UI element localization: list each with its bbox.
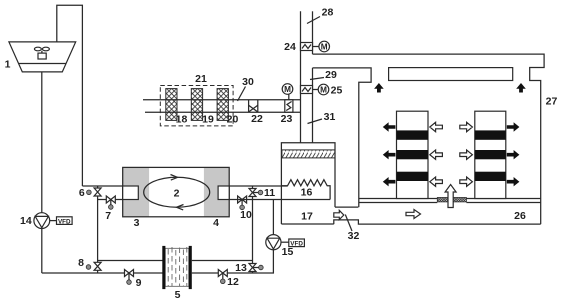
wire bottom-left pipe [42, 272, 163, 274]
wire vertical duct right line lower [312, 68, 314, 143]
svg-text:26: 26 [514, 210, 526, 222]
cold aisle up arrow [445, 185, 456, 208]
svg-text:16: 16 [301, 186, 313, 198]
svg-text:32: 32 [348, 230, 360, 242]
wire lower pipe HX to AHU [229, 199, 330, 201]
svg-text:28: 28 [322, 7, 334, 19]
heat exchanger 2 [123, 167, 230, 216]
wire duct 29 bottom and left wall [313, 68, 372, 207]
svg-text:15: 15 [282, 246, 294, 258]
svg-text:12: 12 [227, 276, 239, 288]
pump 14 [34, 213, 72, 229]
valve 11 [249, 189, 263, 197]
server rack right [475, 111, 506, 198]
filter 18 [166, 89, 177, 121]
filter 20 [217, 89, 228, 121]
svg-text:21: 21 [195, 73, 207, 85]
wire pump 15 top riser [272, 200, 274, 235]
tank 5 [162, 246, 192, 289]
svg-text:9: 9 [136, 277, 142, 289]
motor M of damper 23 [282, 84, 293, 95]
damper 25 [301, 86, 319, 94]
svg-text:19: 19 [202, 114, 214, 126]
valve 7 [106, 196, 115, 209]
svg-text:M: M [320, 86, 327, 95]
svg-text:18: 18 [176, 114, 188, 126]
wire vertical duct left line [300, 11, 302, 142]
hot exhaust arrows left rack [383, 122, 396, 131]
humidifier 22 [249, 100, 258, 112]
underfloor supply arrow [406, 210, 421, 219]
svg-text:3: 3 [134, 217, 140, 229]
wire left riser valve line [97, 186, 99, 273]
svg-text:6: 6 [79, 187, 85, 199]
svg-text:4: 4 [213, 217, 219, 229]
svg-text:2: 2 [174, 188, 180, 200]
wire outside-air duct lines [143, 99, 301, 101]
svg-text:13: 13 [235, 262, 247, 274]
svg-text:8: 8 [78, 257, 84, 269]
wire bottom-right pipe [192, 250, 274, 274]
pump 15 [266, 235, 305, 250]
valve 9 [125, 270, 134, 285]
motor M of damper 25 [318, 84, 329, 95]
svg-text:27: 27 [546, 96, 558, 108]
ceiling baffle [389, 68, 513, 81]
svg-text:29: 29 [325, 69, 337, 81]
AHU box 17 [281, 143, 335, 224]
damper 24 [301, 43, 319, 51]
svg-text:7: 7 [105, 210, 111, 222]
wire lower pipe to HX left [98, 199, 123, 201]
wire tank upper-left pipe [98, 260, 163, 262]
damper 23 [285, 94, 293, 112]
svg-text:25: 25 [331, 85, 343, 97]
server rack left [397, 111, 429, 198]
wire enclosure bottom outline [334, 220, 541, 224]
valve 13 [249, 264, 263, 272]
svg-text:30: 30 [242, 76, 254, 88]
raised floor lines [359, 198, 438, 200]
svg-text:14: 14 [20, 215, 32, 227]
valve 6 [87, 188, 102, 196]
airflow arrow 32 [334, 210, 344, 219]
motor M of damper 24 [319, 41, 330, 52]
hot air up arrow right [516, 83, 526, 93]
wire enclosure ceiling line [313, 54, 545, 224]
svg-text:20: 20 [227, 114, 239, 126]
perforated floor tile [437, 198, 466, 202]
hot exhaust arrows right rack [507, 122, 520, 131]
svg-text:10: 10 [240, 209, 252, 221]
wire branch valve 11/13 [252, 186, 254, 273]
wire tower outlet to pump 14 [41, 72, 43, 213]
wire pump 14 outlet down [41, 229, 43, 274]
cooling coil 16 [281, 180, 330, 200]
cold intake arrows left rack [430, 122, 443, 131]
valve 12 [218, 270, 227, 284]
svg-text:11: 11 [264, 187, 275, 199]
hot air up arrow left [374, 83, 384, 93]
wire tank upper-right pipe [192, 260, 253, 262]
filter bank dashed box 21 [160, 86, 233, 126]
svg-text:M: M [321, 43, 328, 52]
svg-text:1: 1 [5, 59, 11, 71]
svg-text:5: 5 [175, 289, 181, 301]
filter 19 [191, 89, 202, 121]
valve 8 [86, 262, 101, 270]
wire upper pipe HX to coil [229, 185, 287, 187]
svg-text:31: 31 [324, 111, 336, 123]
svg-text:17: 17 [301, 210, 313, 222]
valve 10 [238, 196, 247, 210]
svg-text:VFD: VFD [58, 218, 71, 225]
cold intake arrows right rack [460, 122, 473, 131]
svg-text:23: 23 [281, 113, 293, 125]
wire AHU to plenum passage [335, 206, 358, 208]
cooling tower 1 [9, 42, 76, 72]
svg-text:24: 24 [284, 41, 296, 53]
wire tower top U-pipe [57, 5, 83, 186]
svg-text:22: 22 [251, 113, 263, 125]
wire upper pipe tower to HX [82, 185, 122, 187]
wire vertical duct right line upper [312, 11, 314, 54]
svg-text:M: M [284, 85, 291, 94]
